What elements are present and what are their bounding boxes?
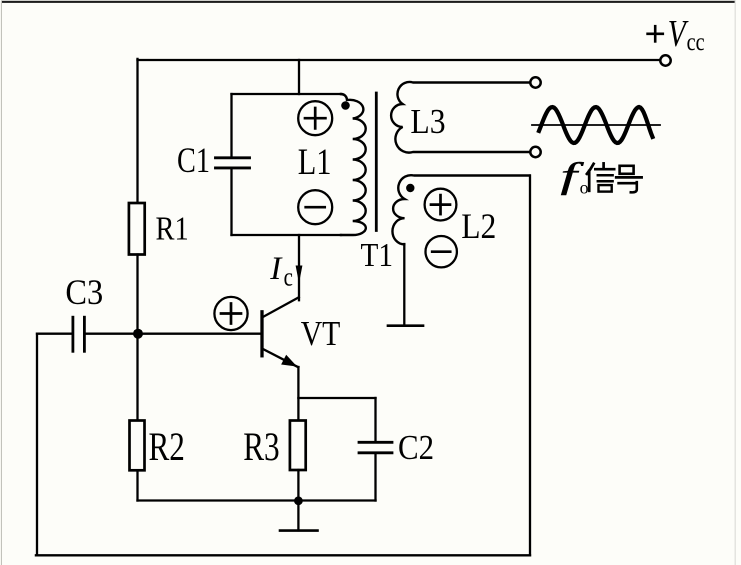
transistor VT emitter arrow	[282, 356, 296, 366]
transformer T1 core	[375, 93, 378, 231]
wire feedback loop right side	[529, 176, 531, 556]
wire feedback loop left side	[36, 334, 38, 556]
svg-text:VT: VT	[301, 314, 341, 353]
capacitor C3	[37, 317, 138, 351]
wire feedback loop bottom side	[36, 554, 530, 556]
ground symbol below R3	[280, 501, 318, 531]
transistor VT emitter lead	[262, 349, 298, 368]
svg-text:cc: cc	[687, 28, 705, 56]
label 号 (hao) drawn glyph	[616, 166, 641, 193]
wire bottom node rail	[138, 499, 376, 501]
phase dot of L2	[406, 184, 414, 192]
capacitor C2	[359, 398, 392, 501]
inductor L3 winding	[391, 82, 530, 153]
wire top supply rail	[138, 59, 660, 61]
polarity mark plus circle at base	[214, 297, 247, 330]
svg-text:L2: L2	[461, 206, 496, 246]
label fo (signal frequency)	[561, 156, 589, 198]
wire emitter branch to C2	[298, 397, 375, 399]
inductor L1 winding	[341, 94, 366, 235]
node emitter ground junction dot	[294, 496, 303, 505]
svg-text:C2: C2	[398, 428, 434, 467]
node base junction dot	[133, 329, 143, 339]
svg-text:o: o	[580, 178, 589, 198]
current arrow Ic on collector wire	[296, 266, 302, 281]
label 信 (xin) drawn glyph	[587, 163, 614, 191]
label Ic	[269, 250, 293, 292]
wire L2 bottom stub	[403, 244, 405, 326]
transistor VT base bar	[260, 312, 263, 356]
svg-text:L1: L1	[298, 142, 332, 183]
wire rail drop to tank	[298, 60, 300, 94]
wire collector drop from tank	[298, 235, 300, 300]
svg-text:R1: R1	[156, 211, 189, 248]
svg-text:L3: L3	[410, 102, 445, 141]
wire R2 bottom	[136, 470, 138, 500]
sine wave axis line	[532, 124, 660, 126]
svg-text:C3: C3	[65, 272, 103, 312]
terminal +Vcc open circle	[660, 55, 670, 65]
wire R1 bottom to base node to R2	[136, 255, 138, 422]
wire L1 tank top	[232, 93, 342, 95]
capacitor C1	[216, 94, 250, 235]
phase dot of L1	[341, 101, 350, 110]
terminal L3 bottom open circle	[530, 147, 540, 157]
wire base node to transistor base	[138, 333, 261, 335]
svg-text:C1: C1	[177, 140, 210, 180]
polarity mark minus circle on L2	[426, 236, 457, 267]
resistor R2	[130, 421, 145, 471]
resistor R1	[129, 203, 145, 255]
terminal L3 top open circle	[530, 77, 540, 87]
svg-text:R2: R2	[149, 424, 185, 469]
wire left branch vertical (top rail to R1)	[136, 59, 138, 205]
label +Vcc	[648, 13, 705, 56]
wire L1 tank bottom	[232, 234, 342, 236]
svg-text:R3: R3	[243, 424, 280, 469]
polarity mark plus circle on L2	[425, 189, 457, 221]
ground symbol below L2	[388, 324, 423, 327]
wire emitter down to R3	[297, 367, 299, 422]
sine wave of output signal	[539, 107, 653, 143]
polarity mark plus circle on L1 top	[298, 101, 332, 135]
svg-text:I: I	[269, 250, 283, 287]
resistor R3	[290, 421, 306, 471]
svg-text:c: c	[284, 262, 293, 291]
inductor L2 winding	[392, 175, 529, 244]
svg-text:T1: T1	[361, 237, 394, 274]
transistor VT collector lead	[262, 297, 299, 317]
wire R3 bottom to ground node	[297, 470, 299, 501]
polarity mark minus circle on L1 bottom	[298, 190, 332, 224]
